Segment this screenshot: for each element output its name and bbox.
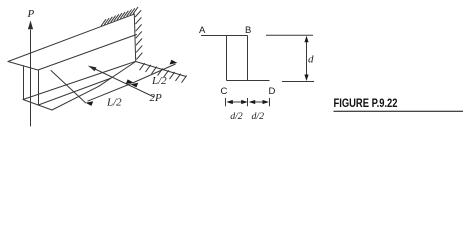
beam free-end bottom wall C-B44-D	[23, 100, 52, 111]
beam long edge from D to wall slant end	[52, 86, 99, 110]
dimension L/2 left segment	[86, 79, 134, 106]
wall hatching below base	[140, 63, 187, 83]
dimension L/2 right segment	[131, 60, 178, 88]
section bottom wall C-D	[227, 80, 270, 82]
load P arrow	[28, 21, 33, 127]
beam long edge from B44 to wall slant	[38, 78, 111, 105]
svg-text:d: d	[308, 54, 314, 66]
beam long edge from C to wall	[23, 61, 136, 99]
svg-text:B: B	[245, 25, 251, 36]
svg-text:L/2: L/2	[106, 97, 122, 109]
witness line to left dimension	[51, 71, 86, 103]
wall hatching right side	[135, 10, 142, 59]
wall base line	[136, 62, 186, 77]
svg-text:L/2: L/2	[151, 75, 167, 87]
svg-text:d/2: d/2	[252, 111, 265, 122]
beam free-end cell vertical V1	[23, 66, 25, 100]
beam free-end cell vertical V2	[38, 70, 40, 105]
load 2P arrow	[88, 66, 154, 97]
section web right vertical	[247, 36, 249, 81]
beam long edge from A to wall top	[8, 14, 134, 62]
cross-section figure	[201, 36, 270, 81]
svg-text:A: A	[199, 25, 206, 36]
caption rule	[334, 111, 464, 112]
d/2 dimension ticks and arrows	[226, 98, 270, 106]
wall hatching along top edge	[101, 7, 138, 26]
section web left vertical	[226, 36, 228, 81]
svg-text:D: D	[269, 86, 276, 97]
beam free-end top wall A-T2-TB	[8, 62, 38, 71]
wall front slant edge	[99, 62, 136, 87]
svg-text:P: P	[27, 8, 35, 20]
svg-text:C: C	[221, 86, 228, 97]
svg-text:d/2: d/2	[230, 111, 243, 122]
d dimension extension lines	[266, 35, 314, 81]
beam long edge from TB to wall	[38, 35, 137, 71]
svg-text:2P: 2P	[150, 92, 163, 104]
section top wall A-B	[201, 35, 248, 37]
svg-text:FIGURE P.9.22: FIGURE P.9.22	[334, 98, 398, 110]
wall vertical edge	[134, 14, 135, 62]
